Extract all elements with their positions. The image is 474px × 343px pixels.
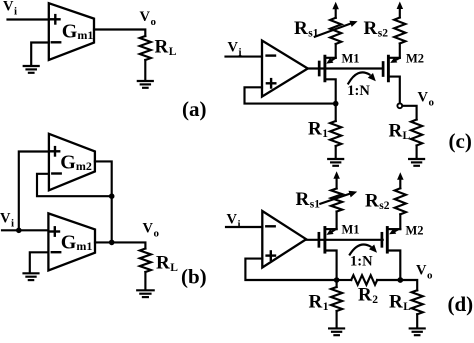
svg-text:R2: R2 [358,285,378,307]
wire Vi to OTA + input (a) [8,18,49,20]
label R1 (d) [309,292,329,314]
label M1 (c) [342,52,360,66]
label Rs2 (d) [365,191,390,213]
minus input marker (d) [266,225,274,227]
svg-text:(c): (c) [449,129,472,153]
wire Vi to op-amp minus (d) [226,226,262,228]
transistor M2 drain wire (c) [388,57,399,59]
wire Gm1 minus to ground (b) [30,252,49,272]
resistor Rs2 (c) [394,18,405,44]
op-amp OTA Gm1 (a) [49,3,94,60]
wire RL to ground (d) [416,314,418,328]
transistor M1 source wire (c) [325,79,336,121]
resistor Rs1 (d) [331,189,342,212]
label M2 (d) [406,224,424,238]
label RL (b) [156,253,178,275]
transistor M2 source wire (d) [387,251,400,281]
plus input marker (a) [51,15,59,23]
svg-text:Rs1: Rs1 [296,189,321,211]
resistor RL (b) [140,249,151,273]
wire RL to ground (a) [144,60,146,81]
node Vi junction dot (b) [16,228,22,234]
transistor M1 drain arrow (d) [327,229,335,235]
op-amp OTA Gm2 (b) [49,134,95,191]
label Gm2 (b) [60,152,92,174]
supply arrow above Rs1 (d) [333,171,340,188]
adjust arrow through Rs1 (d) [320,191,357,204]
wire Vi to op-amp minus (c) [226,56,263,58]
wire Rs1 to M1 drain (c) [335,44,337,58]
label (a) [182,97,207,121]
label Vi (d) [227,212,241,231]
ground (d) below R1 [329,328,344,335]
label 1:N (d) [350,254,373,270]
svg-text:(d): (d) [448,292,474,316]
svg-text:M2: M2 [406,224,424,238]
resistor RL (a) [140,36,151,60]
op-amp OTA Gm1 (b) [48,213,95,270]
node Vo open circle (c) [397,103,402,108]
transistor M2 channel bar (c) [387,56,390,81]
wire gate line op-amp to M2 (c) [308,67,383,69]
transistor M1 channel bar (d) [323,228,326,253]
adjust arrow through Rs1 (c) [315,21,358,37]
ground (a) at OTA minus [24,66,39,73]
minus input marker Gm1 (b) [52,251,60,253]
svg-text:RL: RL [155,37,177,59]
transistor M1 drain wire (d) [325,228,337,230]
svg-text:Vi: Vi [228,40,242,59]
transistor M2 drain arrow (d) [389,229,397,235]
label R1 (c) [308,119,328,141]
svg-text:(a): (a) [182,97,207,121]
svg-text:Rs2: Rs2 [365,191,390,213]
plus input marker (d) [267,251,275,259]
resistor R2 (d) [339,275,400,285]
svg-text:1:N: 1:N [347,83,370,99]
wire minus input to ground (a) [31,43,49,66]
svg-text:Vi: Vi [0,211,14,230]
wire op-amp plus feedback (d) [245,259,336,280]
svg-text:Rs2: Rs2 [364,18,389,40]
transistor M2 drain wire (d) [387,228,400,230]
label Rs1 (d) [296,189,321,211]
svg-text:Gm1: Gm1 [61,232,93,254]
wire R1 to ground (c) [335,146,337,159]
resistor RL (c) [411,120,422,146]
wire Rs2 to M2 drain (c) [399,44,401,58]
svg-text:(b): (b) [181,265,207,289]
svg-text:Vo: Vo [143,221,160,240]
svg-text:M1: M1 [342,52,360,66]
wire RL to ground (c) [416,146,418,159]
label Vo (a) [140,9,157,28]
svg-text:M1: M1 [342,223,360,237]
wire Vo node to RL (c) [403,106,417,120]
node Vo junction dot (d) [397,277,403,283]
label RL (a) [155,37,177,59]
resistor RL (d) [412,290,423,314]
label Vo (b) [143,221,160,240]
svg-text:Vi: Vi [3,0,17,17]
wire op-amp plus feedback (c) [245,87,336,103]
wire gate line op-amp to M2 (d) [306,239,383,241]
mirror ratio arrow 1:N (c) [348,72,376,83]
wire Vo node to RL (d) [400,280,417,290]
resistor Rs2 (d) [395,188,406,214]
label M2 (c) [406,52,424,66]
transistor M2 drain arrow (c) [390,57,398,63]
svg-text:1:N: 1:N [350,254,373,270]
label Gm1 (b) [61,232,93,254]
label RL (c) [389,121,411,143]
minus input marker (c) [267,54,275,56]
node feedback junction dot (c) [333,101,339,107]
op-amp U1 (c) [262,41,308,97]
wire Gm2 minus feedback (b) [37,174,112,196]
svg-text:R1: R1 [308,119,328,141]
svg-text:RL: RL [389,121,411,143]
label Vi (a) [3,0,17,17]
label Vi (c) [228,40,242,59]
ground (a) below RL [138,81,153,88]
supply arrow above Rs2 (c) [397,2,404,18]
svg-text:Vo: Vo [416,263,433,282]
plus input marker Gm1 (b) [51,227,59,235]
wire OTA output to Vo node (a) [94,30,145,37]
label M1 (d) [342,223,360,237]
plus input marker Gm2 (b) [51,147,59,155]
ground (d) below RL [410,328,425,335]
label (c) [449,129,472,153]
transistor M1 drain arrow (c) [326,58,334,64]
transistor M1 gate bar (c) [318,62,321,75]
wire RL to ground (b) [144,272,146,290]
resistor R1 (d) [331,280,342,311]
svg-text:R1: R1 [309,292,329,314]
resistor R1 (c) [330,121,341,146]
supply arrow above Rs1 (c) [332,2,339,18]
svg-text:Rs1: Rs1 [294,18,319,40]
label (d) [448,292,474,316]
ground (b) below RL [137,290,154,297]
ground (b) at Gm1 minus [24,273,39,280]
node feedback junction dot (d) [334,277,340,283]
wire Vi up to Gm2 + input (b) [19,152,49,231]
ground (c) below R1 [328,159,343,166]
node feedback junction dot (b) [109,193,115,199]
wire Vi input (b) [2,229,48,231]
ground (c) below RL [409,159,424,166]
transistor M1 drain wire (c) [325,57,336,59]
wire Gm2 output down (b) [95,161,112,242]
label Rs2 (c) [364,18,389,40]
transistor M2 source wire (c) [388,77,399,103]
label R2 (d) [358,285,378,307]
minus input marker (a) [52,41,60,43]
svg-text:RL: RL [389,292,411,314]
minus input marker Gm2 (b) [52,172,60,174]
supply arrow above Rs2 (d) [397,172,404,188]
wire R1 to ground (d) [336,311,338,328]
transistor M1 gate bar (d) [318,233,321,246]
svg-text:M2: M2 [406,52,424,66]
svg-text:Gm1: Gm1 [62,21,94,43]
svg-text:RL: RL [156,253,178,275]
wire output to Vo (b) [95,242,145,248]
label Rs1 (c) [294,18,319,40]
label Vi (b) [0,211,14,230]
plus input marker (c) [267,79,275,87]
transistor M2 gate bar (c) [382,63,385,76]
wire Rs1 to M1 drain (d) [336,212,338,230]
label Vo (d) [416,263,433,282]
wire Rs2 to M2 drain (d) [399,214,401,229]
op-amp U2 (d) [262,211,306,268]
svg-text:Gm2: Gm2 [60,152,92,174]
label Gm1 (a) [62,21,94,43]
label RL (d) [389,292,411,314]
label 1:N (c) [347,83,370,99]
resistor Rs1 (c) [330,18,341,44]
node output junction dot (b) [109,240,115,246]
transistor M1 channel bar (c) [323,56,326,81]
transistor M2 channel bar (d) [386,228,389,253]
svg-text:Vo: Vo [418,90,435,109]
transistor M2 gate bar (d) [381,233,384,246]
mirror ratio arrow 1:N (d) [350,244,377,254]
label (b) [181,265,207,289]
transistor M1 source wire (d) [325,251,337,281]
label Vo (c) [418,90,435,109]
svg-text:Vo: Vo [140,9,157,28]
